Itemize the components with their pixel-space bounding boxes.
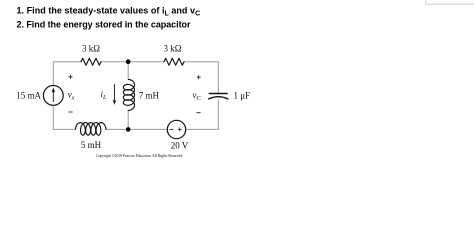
label vx plus: [69, 75, 73, 79]
wire top-right: [184, 61, 218, 64]
current source I1 arrow: [52, 90, 54, 102]
svg-text:1. Find the steady-state value: 1. Find the steady-state values of iL an…: [17, 5, 201, 17]
wire top-left: [53, 61, 81, 64]
svg-text:1 μF: 1 μF: [234, 91, 251, 101]
wire right-lower: [217, 100, 219, 130]
label V1 plus sign: [178, 128, 182, 132]
svg-text:2. Find the energy stored in t: 2. Find the energy stored in the capacit…: [17, 20, 191, 30]
svg-text:20 V: 20 V: [171, 141, 189, 151]
node dot bottom: [126, 127, 131, 132]
svg-text:iL: iL: [101, 89, 108, 101]
wire left-upper: [52, 62, 54, 86]
resistor R1 3 kOhm: [81, 58, 101, 65]
label vC minus: [196, 112, 200, 114]
capacitor C1 top plate: [209, 93, 227, 95]
label V1 minus sign: [170, 128, 174, 130]
svg-text:Copyright ©2018 Pearson Educat: Copyright ©2018 Pearson Education, All R…: [96, 153, 183, 159]
wire middle-lower: [127, 110, 129, 129]
capacitor C1 bottom plate: [209, 97, 228, 99]
inductor L1 7 mH: [123, 79, 134, 110]
current source I1 circle: [43, 86, 63, 106]
resistor R2 3 kOhm: [164, 58, 184, 65]
svg-text:3 kΩ: 3 kΩ: [164, 44, 182, 54]
svg-text:3 kΩ: 3 kΩ: [82, 44, 100, 54]
wire middle-upper: [127, 62, 129, 80]
current arrow iL: [113, 84, 115, 102]
svg-text:vx: vx: [68, 90, 75, 102]
node dot top: [126, 59, 131, 64]
svg-text:5 mH: 5 mH: [81, 140, 102, 150]
clipped UI box corner top-right: [426, 0, 474, 4]
wire bottom-mid: [106, 128, 167, 130]
inductor L2 5 mH: [75, 123, 106, 136]
wire bottom-right: [186, 128, 219, 131]
wire left-lower: [52, 105, 54, 129]
wire bottom-left: [53, 128, 75, 131]
svg-text:15 mA: 15 mA: [16, 91, 41, 101]
wire right-upper: [217, 62, 219, 93]
voltage source V1 circle: [167, 120, 185, 138]
label vC plus: [197, 75, 201, 79]
label vx minus: [68, 111, 72, 113]
wire top-mid: [101, 61, 164, 63]
svg-text:vC: vC: [193, 90, 201, 102]
svg-text:7 mH: 7 mH: [139, 90, 160, 100]
